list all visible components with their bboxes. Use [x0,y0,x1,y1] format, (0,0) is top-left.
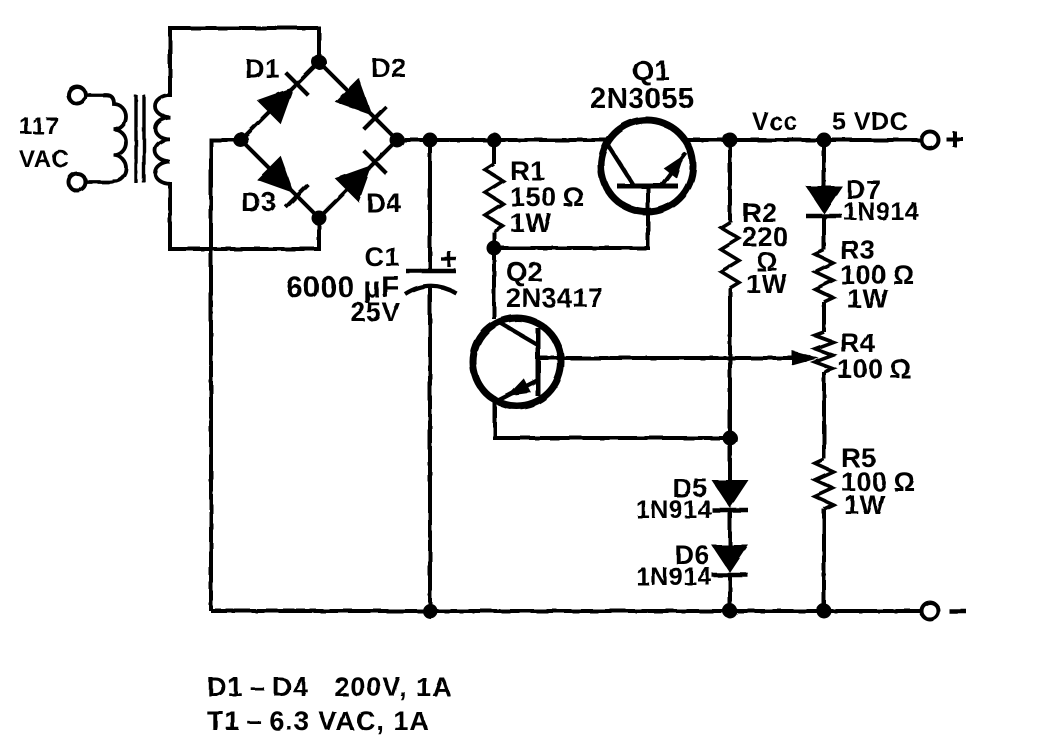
wire bridge arm D4 [319,140,397,218]
output polarity + [946,137,963,141]
node 5VDC branch top [817,133,832,148]
svg-text:100 Ω: 100 Ω [837,354,912,384]
capacitor C1 polarity + [441,257,457,260]
diode D1 [257,87,294,124]
diode D3 [257,156,294,193]
input terminal (117 VAC bottom) [69,174,86,191]
transistor Q1 collector [606,142,634,186]
svg-text:VAC: VAC [19,146,69,173]
node R5 bottom [817,604,832,619]
svg-text:1W: 1W [844,490,886,520]
input terminal (117 VAC top) [69,87,86,104]
svg-text:1N914: 1N914 [636,496,712,524]
svg-text:1W: 1W [746,269,788,299]
svg-text:Q1: Q1 [632,55,670,86]
node R1 top [487,133,502,148]
wire Q2 collector lead [492,248,496,319]
transistor Q2 emitter [499,380,538,400]
node D6 bottom [723,604,738,619]
node R2 bottom / D5 anode [723,431,738,446]
wire negative bottom rail [211,609,922,613]
transistor Q1 base bar [617,184,678,189]
svg-text:D2: D2 [371,53,407,83]
wire R1 bottom lead [492,232,496,248]
svg-text:25V: 25V [350,297,400,327]
svg-text:T1 – 6.3 VAC, 1A: T1 – 6.3 VAC, 1A [207,706,430,736]
resistor R4 [815,332,833,372]
wire bridge arm D1 [241,62,319,140]
wire R5 to negative rail [822,509,826,611]
node bridge right [390,133,405,148]
svg-text:D1 – D4 200V, 1A: D1 – D4 200V, 1A [207,672,452,702]
resistor R1 [485,164,503,232]
wire secondary top to bridge top node [170,28,319,97]
wire positive rail left of Q1 [397,138,607,142]
node R1 bottom / Q2 collector [487,241,502,256]
wire R1 bottom to Q1 base [494,188,648,248]
transformer T1 secondary winding [155,95,170,184]
svg-text:117: 117 [19,113,59,140]
svg-text:2N3417: 2N3417 [506,283,604,313]
node C1 bottom [423,604,438,619]
wire bridge arm D3 [241,140,319,218]
wire R1 top lead [492,140,496,164]
node C1 top [423,133,438,148]
transistor Q2 emitter arrow [507,378,531,396]
wire secondary bottom to bridge bottom node [170,182,319,249]
transistor Q1 emitter [661,153,686,186]
transistor Q1 emitter arrow [664,155,684,178]
node R2 top [723,133,738,148]
transformer T1 core [134,95,137,183]
diode D7 [806,186,843,214]
svg-text:1W: 1W [847,284,889,314]
output terminal positive [922,132,939,149]
node bridge top [312,55,327,70]
svg-text:D4: D4 [366,188,402,218]
diode D4 [335,165,372,202]
transistor Q1 circle [601,120,693,212]
svg-text:C1: C1 [364,242,400,272]
svg-text:5 VDC: 5 VDC [832,108,908,136]
wire bridge left node to negative rail [211,140,241,611]
resistor R2 [721,222,739,288]
resistor R3 [815,250,833,302]
transistor Q2 collector [497,321,538,345]
wire D7 top lead [822,140,826,186]
node bridge bottom [312,211,327,226]
wire C1 bottom lead [428,287,432,611]
capacitor C1 [406,269,456,274]
wire positive rail right of Q1 [687,138,922,142]
wire D7 to R3 [822,218,826,250]
wire Q2 base to R4 wiper [538,356,806,360]
output terminal negative [922,603,939,620]
svg-text:1N914: 1N914 [843,198,919,226]
diode D5 [712,480,749,508]
svg-text:Vcc: Vcc [752,108,798,136]
wire Q2 emitter lead [495,400,730,438]
diode D6 [712,545,749,573]
svg-text:1N914: 1N914 [636,563,712,591]
wire R4 to R5 [822,372,826,459]
svg-text:D1: D1 [245,54,281,84]
wire C1 top lead [428,140,432,271]
wire R3 to R4 [822,302,826,332]
wire D5 top lead [728,438,732,480]
wire R2 top lead [728,140,732,222]
wire R2 bottom lead [728,288,732,438]
wire D5 to D6 [728,512,732,545]
wire bridge arm D2 [319,62,397,140]
svg-text:1W: 1W [510,208,552,238]
node bridge left [234,133,249,148]
svg-text:2N3055: 2N3055 [590,83,695,115]
svg-text:D3: D3 [241,187,277,217]
output polarity - [949,609,966,614]
transformer T1 primary winding [86,95,126,182]
transistor Q2 circle [473,318,561,406]
transistor Q2 base bar [536,328,541,396]
wire D6 to negative rail [728,577,732,611]
diode D2 [335,78,372,115]
resistor R5 [815,459,833,509]
R4 wiper arrow [792,351,819,366]
